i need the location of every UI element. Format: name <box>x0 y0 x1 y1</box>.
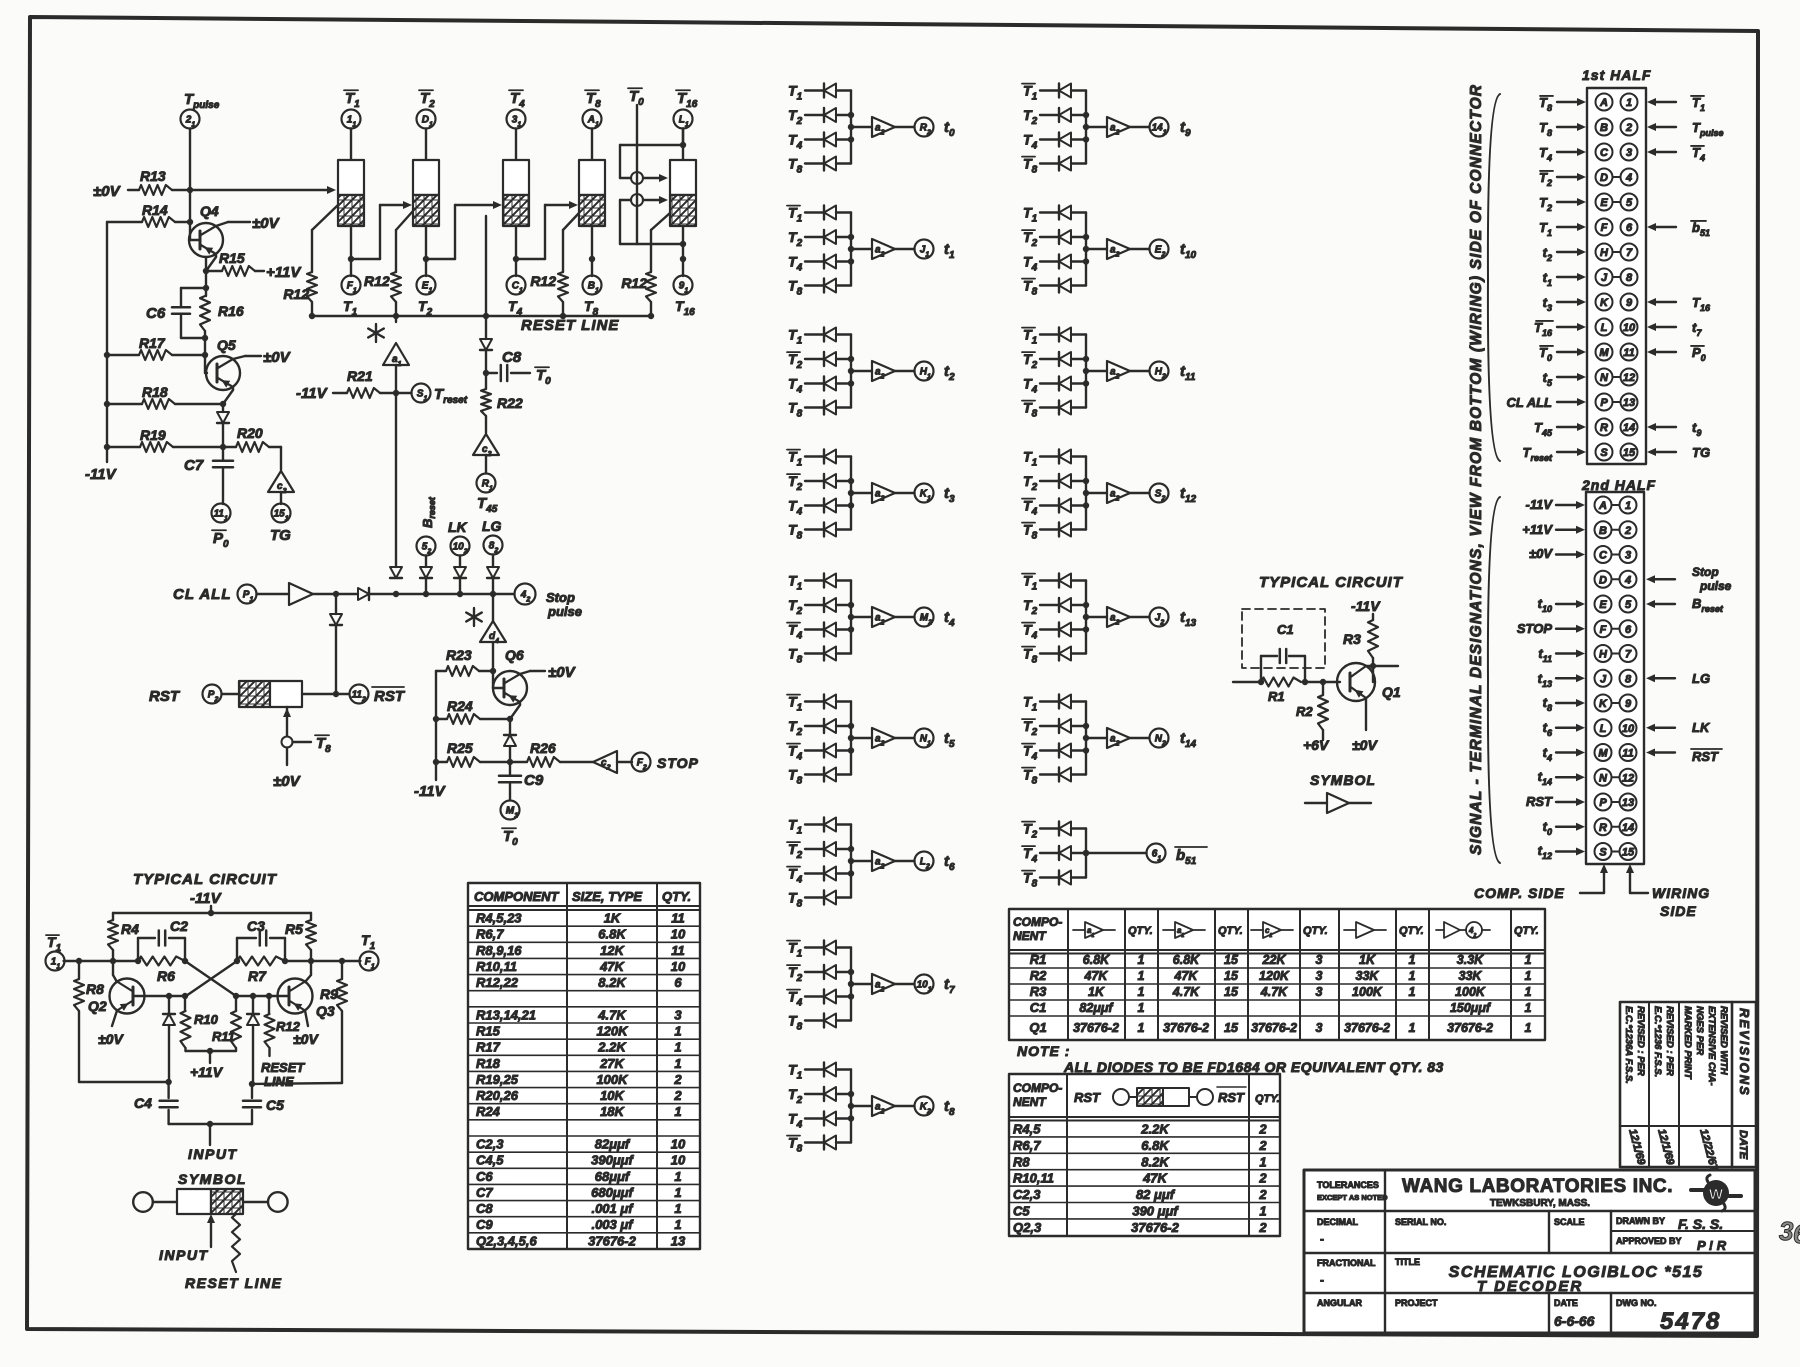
ff symbol (legend) <box>133 1189 287 1214</box>
op-amp a2 (t0) <box>848 117 915 137</box>
svg-text:COMPO-: COMPO- <box>1013 915 1062 929</box>
svg-text:Q3: Q3 <box>316 1003 335 1019</box>
label DATE / 6-6-66 <box>1554 1298 1595 1329</box>
label t13 <box>1180 609 1197 629</box>
label Tbar16 <box>676 90 698 110</box>
svg-text:H: H <box>1599 649 1608 661</box>
svg-text:R7: R7 <box>248 968 267 984</box>
svg-text:QTY.: QTY. <box>662 889 691 904</box>
table row R12,22 <box>476 975 682 990</box>
label Tbar2 <box>419 90 435 110</box>
terminal R-1 (T45) <box>477 455 498 515</box>
transistor Q4 <box>189 203 223 257</box>
table row R6,7 <box>476 927 686 942</box>
gate t1 inputs <box>787 205 851 225</box>
label t3 <box>944 485 955 505</box>
svg-text:Q5: Q5 <box>217 337 236 353</box>
rst table row R8 <box>1013 1154 1267 1169</box>
svg-text:Q2,3,4,5,6: Q2,3,4,5,6 <box>476 1233 537 1248</box>
op-amp a2 (t13) <box>1083 607 1150 627</box>
label t6 <box>944 853 955 873</box>
gate t5 inputs <box>787 694 851 714</box>
svg-text:1: 1 <box>1138 1001 1145 1015</box>
svg-text:3: 3 <box>1316 953 1323 967</box>
svg-text:33K: 33K <box>1356 969 1380 983</box>
connector pin F-6 (2nd half) <box>1517 620 1637 637</box>
svg-text:6.8K: 6.8K <box>1141 1138 1170 1153</box>
resistor R12 (typ ff) <box>265 996 301 1056</box>
svg-text:-11V: -11V <box>1351 598 1381 614</box>
gate t8 inputs <box>788 1062 851 1082</box>
svg-text:C: C <box>1599 550 1608 562</box>
svg-text:10: 10 <box>1622 723 1635 735</box>
wire carry FF2 to FF3 <box>426 201 502 259</box>
svg-text:14: 14 <box>1622 822 1634 834</box>
left -11V bus <box>85 222 118 483</box>
wire Tpulse vertical <box>187 129 193 226</box>
gate t9 inputs <box>1022 83 1086 103</box>
wire Q4 emitter <box>206 254 216 271</box>
resistor R15 <box>203 250 303 281</box>
svg-text:DWG NO.: DWG NO. <box>1616 1298 1657 1308</box>
diode D (RST link) <box>330 614 342 697</box>
svg-text:RST: RST <box>149 688 181 705</box>
table row C2,3 <box>476 1137 686 1152</box>
svg-text:SYMBOL: SYMBOL <box>178 1171 247 1187</box>
gate t7 inputs <box>787 940 851 960</box>
svg-text:R15: R15 <box>476 1024 501 1039</box>
svg-text:R2: R2 <box>1030 968 1047 983</box>
op-amp a1 <box>383 316 409 368</box>
connector pin B-2 (1st half) <box>1539 119 1723 139</box>
svg-text:1: 1 <box>1525 953 1532 967</box>
wire cross-coupling <box>185 961 237 996</box>
svg-text:LG: LG <box>1692 671 1710 686</box>
wire Q5 emitter <box>220 387 233 412</box>
label t8 <box>944 1098 955 1118</box>
wire RST symbol bottom <box>283 707 291 736</box>
svg-text:8.2K: 8.2K <box>1141 1154 1170 1169</box>
terminal 9-1 (T16) <box>674 276 696 319</box>
svg-text:±0V: ±0V <box>98 1031 124 1047</box>
terminal S-2 (t12) <box>1150 484 1169 503</box>
svg-text:47K: 47K <box>599 959 625 974</box>
svg-text:1st HALF: 1st HALF <box>1582 67 1651 83</box>
terminal P-1 (CL ALL) <box>238 585 257 604</box>
svg-text:-11V: -11V <box>296 385 329 402</box>
svg-text:27K: 27K <box>599 1056 625 1071</box>
table row R10,11 <box>476 959 686 974</box>
svg-text:100K: 100K <box>596 1072 629 1087</box>
svg-text:REVISED : PER: REVISED : PER <box>1664 1006 1675 1076</box>
diode D (Q5 emitter chain) <box>217 412 229 450</box>
svg-text:2: 2 <box>1625 122 1632 134</box>
diode D (T reset chain) <box>480 339 492 389</box>
terminal P-2 (RST) <box>203 685 222 704</box>
wire R12-3 top <box>563 213 579 272</box>
resistor R21 <box>333 368 396 398</box>
terminal M-2 (t4) <box>915 608 934 627</box>
wire T16 loop lower with crossover <box>620 194 668 244</box>
diode D (Q6 emitter) <box>504 735 516 765</box>
svg-text:15: 15 <box>1224 953 1239 967</box>
svg-text:S: S <box>1599 847 1607 859</box>
capacitor C4 <box>134 1082 178 1124</box>
capacitor C7 <box>184 447 233 504</box>
svg-text:R2: R2 <box>1296 704 1313 719</box>
svg-text:-11V: -11V <box>85 466 118 483</box>
label INPUT <box>188 1146 238 1162</box>
svg-text:+11V: +11V <box>1522 522 1553 537</box>
svg-text:1: 1 <box>674 1169 681 1184</box>
terminal K-1 (t3) <box>915 484 934 503</box>
svg-text:1: 1 <box>674 1056 681 1071</box>
handwritten 36 <box>1779 1216 1800 1249</box>
label APPROVED BY <box>1616 1236 1727 1253</box>
wire Q2 collector <box>113 961 117 982</box>
svg-text:QTY.: QTY. <box>1303 925 1328 937</box>
terminal A-1 <box>583 110 602 129</box>
label WIRING SIDE <box>1626 864 1710 919</box>
svg-text:1: 1 <box>674 1185 681 1200</box>
svg-text:2: 2 <box>673 1088 682 1103</box>
resistor R5 <box>285 913 316 961</box>
svg-text:R3: R3 <box>1343 631 1361 647</box>
svg-text:E: E <box>1600 197 1608 209</box>
svg-text:6: 6 <box>1793 1219 1800 1249</box>
wire T0bar vertical <box>636 105 638 244</box>
gate bus wire <box>848 91 854 164</box>
connector pin S-15 (2nd half) <box>1538 843 1637 861</box>
svg-text:SYMBOL: SYMBOL <box>1310 772 1376 788</box>
label PROJECT <box>1395 1298 1438 1308</box>
svg-text:NENT: NENT <box>1013 1095 1047 1109</box>
table row C4,5 <box>476 1153 686 1168</box>
svg-text:1: 1 <box>1138 1021 1145 1035</box>
svg-text:RESET LINE: RESET LINE <box>521 317 619 334</box>
svg-text:SIDE: SIDE <box>1660 903 1697 919</box>
svg-text:A: A <box>1599 97 1608 109</box>
title text T DECODER <box>1477 1278 1583 1295</box>
svg-text:EXCEPT AS NOTED: EXCEPT AS NOTED <box>1317 1193 1388 1202</box>
svg-text:DATE: DATE <box>1554 1298 1578 1308</box>
label t10 <box>1180 241 1197 261</box>
svg-text:STOP: STOP <box>1517 621 1552 636</box>
label TOLERANCES <box>1317 1180 1388 1202</box>
capacitor C5 <box>243 1084 284 1124</box>
svg-text:R13: R13 <box>140 168 166 184</box>
title text SCHEMATIC LOGIBLOC #515 <box>1449 1264 1704 1281</box>
label -11V (R3) <box>1351 598 1381 614</box>
flip-flop block FF3 <box>503 160 529 226</box>
gate t2 inputs <box>788 327 851 347</box>
terminal D-1 <box>417 110 436 129</box>
buffer amp (CL ALL) <box>257 583 314 605</box>
wire terminal to FF4 <box>591 129 593 161</box>
wire FF2 output <box>423 226 429 276</box>
title block frame <box>1304 1170 1755 1333</box>
rst table row R10,11 <box>1013 1171 1267 1186</box>
wire RST symbol to RSTbar <box>302 693 350 695</box>
svg-text:10: 10 <box>1623 322 1636 334</box>
-11V top rail <box>113 906 311 916</box>
svg-text:C2: C2 <box>170 918 188 934</box>
label t4 <box>944 609 955 629</box>
svg-text:COMPONENT: COMPONENT <box>474 889 560 904</box>
gate bus wire <box>848 581 854 654</box>
svg-text:SERIAL NO.: SERIAL NO. <box>1395 1217 1446 1227</box>
svg-text:47K: 47K <box>1084 969 1109 983</box>
svg-text:12: 12 <box>1623 372 1635 384</box>
label t0 <box>944 119 955 139</box>
label RST <box>149 688 181 705</box>
connector pin N-12 (1st half) <box>1543 369 1638 389</box>
wire R12-4 top <box>651 213 670 272</box>
svg-text:A: A <box>1598 500 1607 512</box>
label LK <box>448 519 468 535</box>
gate bus wire <box>848 948 854 1021</box>
svg-text:3: 3 <box>1316 969 1323 983</box>
resistor R18 <box>104 384 223 409</box>
op-amp d4 <box>480 594 506 674</box>
resistor R8 <box>74 961 104 1082</box>
svg-text:C6: C6 <box>476 1169 493 1184</box>
svg-text:1: 1 <box>1138 953 1145 967</box>
svg-text:C9: C9 <box>476 1217 493 1232</box>
svg-text:R22: R22 <box>497 395 523 411</box>
wire output node right <box>234 958 361 964</box>
svg-text:3: 3 <box>674 1007 682 1022</box>
svg-text:±0V: ±0V <box>1529 546 1553 561</box>
svg-text:REVISED : PER: REVISED : PER <box>1635 1006 1646 1076</box>
label 1st HALF <box>1582 67 1651 83</box>
svg-text:1K: 1K <box>1088 985 1105 999</box>
gate bus wire <box>1083 829 1089 878</box>
svg-text:QTY.: QTY. <box>1218 925 1243 937</box>
svg-text:Q1: Q1 <box>1382 684 1401 700</box>
svg-text:14: 14 <box>1623 422 1635 434</box>
svg-text:3: 3 <box>1625 550 1631 562</box>
label DRAWN BY F.S.S. <box>1616 1216 1723 1232</box>
svg-text:3: 3 <box>1316 985 1323 999</box>
CL ALL bus <box>393 591 515 597</box>
svg-text:C9: C9 <box>524 772 544 789</box>
svg-text:R10: R10 <box>194 1012 219 1027</box>
resistor R12 <box>283 272 317 302</box>
svg-text:R24: R24 <box>476 1104 501 1119</box>
svg-text:1: 1 <box>674 1024 681 1039</box>
wire Q3 base line <box>233 993 289 999</box>
transistor Q1 <box>1337 663 1401 701</box>
wire buffer to junction <box>313 591 339 597</box>
connector pin L-10 (1st half) <box>1534 319 1702 339</box>
table row R13,14,21 <box>476 1007 682 1022</box>
svg-text:H: H <box>1600 247 1609 259</box>
svg-text:13: 13 <box>1623 397 1635 409</box>
label TEWKSBURY MASS <box>1490 1198 1590 1209</box>
terminal 11-2 (RSTbar) <box>350 685 406 706</box>
svg-text:R23: R23 <box>446 647 472 663</box>
terminal N-2 (t14) <box>1150 729 1169 748</box>
gate bus wire <box>848 213 854 286</box>
label +-0V (Q4 collector) <box>216 215 281 232</box>
svg-text:5: 5 <box>1625 599 1632 611</box>
gate b51 inputs <box>1022 821 1086 841</box>
svg-text:1: 1 <box>674 1217 681 1232</box>
svg-text:1: 1 <box>1138 985 1145 999</box>
label SIGNAL-TERMINAL DESIGNATIONS (rotated) <box>1468 84 1485 855</box>
svg-text:LG: LG <box>482 518 502 534</box>
op-amp a2 (t6) <box>848 851 915 871</box>
small jog wire near FF3 <box>485 216 487 316</box>
svg-text:RST: RST <box>1692 749 1719 764</box>
table row C9 <box>476 1217 682 1232</box>
svg-text:6: 6 <box>674 975 682 990</box>
svg-text:R10,11: R10,11 <box>476 959 517 974</box>
diode D (a1 line) <box>390 567 402 578</box>
op-amp c2 (TG) <box>268 447 294 495</box>
svg-text:R4,5,23: R4,5,23 <box>476 911 522 926</box>
svg-text:R25: R25 <box>447 740 473 756</box>
svg-text:+11V: +11V <box>190 1064 224 1080</box>
amp table header <box>1013 915 1539 943</box>
label SYMBOL <box>178 1171 247 1187</box>
svg-text:-: - <box>1320 1273 1324 1287</box>
svg-text:R12: R12 <box>621 275 647 291</box>
svg-text:SIZE, TYPE: SIZE, TYPE <box>572 889 642 904</box>
terminal 4-2 (Stop pulse) <box>515 584 582 620</box>
svg-text:L: L <box>1601 322 1608 334</box>
svg-text:ALL DIODES TO BE FD1684 OR EQU: ALL DIODES TO BE FD1684 OR EQUIVALENT QT… <box>1063 1059 1444 1075</box>
label FRACTIONAL <box>1317 1258 1376 1287</box>
amp symbol (legend) <box>1305 793 1371 813</box>
svg-text:K: K <box>1600 297 1609 309</box>
wire bus to terminal (b51) <box>1083 850 1147 856</box>
rst table header <box>1013 1081 1280 1109</box>
gate t4 inputs <box>788 573 851 593</box>
table row R24 <box>476 1104 682 1119</box>
connector pin E-5 (2nd half) <box>1538 596 1724 615</box>
svg-text:1: 1 <box>1626 97 1632 109</box>
label b51bar <box>1175 847 1207 867</box>
svg-text:1: 1 <box>674 1201 681 1216</box>
star mark (d4) <box>466 608 482 626</box>
label T0bar <box>628 88 644 108</box>
terminal K-2 (t8) <box>915 1097 934 1116</box>
resistor R19 <box>104 427 223 452</box>
svg-text:1: 1 <box>1409 985 1416 999</box>
input arrow (legend) <box>159 1214 215 1263</box>
svg-text:D: D <box>1600 172 1608 184</box>
label RESET LINE <box>521 317 619 334</box>
svg-text:R4: R4 <box>121 921 139 937</box>
svg-text:1K: 1K <box>604 911 622 926</box>
terminal E-1 (T2) <box>417 276 436 319</box>
svg-text:COMPO-: COMPO- <box>1013 1081 1062 1095</box>
terminal R-2 (t0) <box>915 118 934 137</box>
label B reset (rotated) <box>420 496 437 528</box>
svg-text:PROJECT: PROJECT <box>1395 1298 1438 1308</box>
terminal 8-2 (LG) <box>484 536 503 555</box>
label t9 <box>1180 119 1191 139</box>
svg-text:C7: C7 <box>184 457 204 474</box>
svg-text:Q1: Q1 <box>1029 1020 1046 1035</box>
svg-text:3: 3 <box>1316 1021 1323 1035</box>
svg-text:C2,3: C2,3 <box>1013 1187 1041 1202</box>
svg-text:M: M <box>1599 347 1609 359</box>
svg-text:47K: 47K <box>1174 969 1199 983</box>
rst table row C5 <box>1013 1204 1267 1219</box>
capacitor C3 <box>237 918 285 961</box>
wire Q6 emitter <box>507 702 520 734</box>
amp table row Q1 <box>1029 1020 1531 1035</box>
label DATE (rotated) <box>1737 1130 1749 1160</box>
label TYPICAL CIRCUIT (left) <box>133 871 278 888</box>
svg-text:R20,26: R20,26 <box>476 1088 519 1103</box>
svg-text:NOTE :: NOTE : <box>1017 1043 1070 1059</box>
svg-text:Q2: Q2 <box>88 998 107 1014</box>
svg-text:R12,22: R12,22 <box>476 975 519 990</box>
svg-text:TG: TG <box>270 527 291 544</box>
revisions block frame <box>1620 1002 1756 1167</box>
resistor R16 <box>200 296 244 331</box>
revision entry 1 date <box>1626 1128 1647 1167</box>
svg-text:3: 3 <box>1779 1216 1794 1246</box>
resistor R4 <box>108 913 139 961</box>
svg-text:C4,5: C4,5 <box>476 1153 504 1168</box>
svg-text:±0V: ±0V <box>273 773 302 790</box>
svg-text:NGES PER: NGES PER <box>1694 1006 1705 1055</box>
wire terminal to FF3 <box>515 129 517 161</box>
svg-text:37676-2: 37676-2 <box>588 1233 636 1248</box>
svg-text:REVISED WITH: REVISED WITH <box>1718 1006 1729 1076</box>
svg-text:680μμf: 680μμf <box>591 1185 634 1200</box>
svg-text:C8: C8 <box>476 1201 493 1216</box>
connector pin M-11 (1st half) <box>1539 344 1706 364</box>
svg-text:37676-2: 37676-2 <box>1163 1021 1209 1035</box>
svg-text:±0V: ±0V <box>548 664 577 681</box>
svg-text:C5: C5 <box>266 1097 284 1113</box>
label t2 <box>944 363 955 383</box>
label +-0V (below RST) <box>273 748 302 791</box>
wire carry FF3 to FF4 <box>516 201 578 259</box>
svg-text:390μμf: 390μμf <box>591 1153 634 1168</box>
svg-text:R13,14,21: R13,14,21 <box>476 1007 536 1022</box>
terminal E-2 (t10) <box>1150 240 1169 259</box>
resistor R23 <box>436 647 493 676</box>
connector pin E-5 (1st half) <box>1539 194 1637 214</box>
svg-text:120K: 120K <box>1259 969 1290 983</box>
svg-text:R17: R17 <box>476 1040 501 1055</box>
transistor Q2 <box>88 979 145 1015</box>
svg-text:±0V: ±0V <box>93 183 122 200</box>
label Tbar1 <box>344 90 360 110</box>
svg-text:5478: 5478 <box>1660 1308 1721 1335</box>
svg-text:QTY.: QTY. <box>1514 925 1539 937</box>
gate bus wire <box>1083 91 1089 164</box>
table row C7 <box>476 1185 682 1200</box>
wire Q3 collector <box>305 961 311 982</box>
connector pin M-11 (2nd half) <box>1543 744 1722 764</box>
crossover to T8bar <box>282 735 332 755</box>
amp table row R3 <box>1030 984 1532 999</box>
wire FF1 output <box>348 226 354 276</box>
terminal S-1 (T reset) <box>396 384 468 407</box>
resistor R11 <box>212 996 241 1051</box>
label t14 <box>1180 730 1197 750</box>
resistor R22 <box>481 389 523 433</box>
svg-text:10K: 10K <box>600 1088 625 1103</box>
